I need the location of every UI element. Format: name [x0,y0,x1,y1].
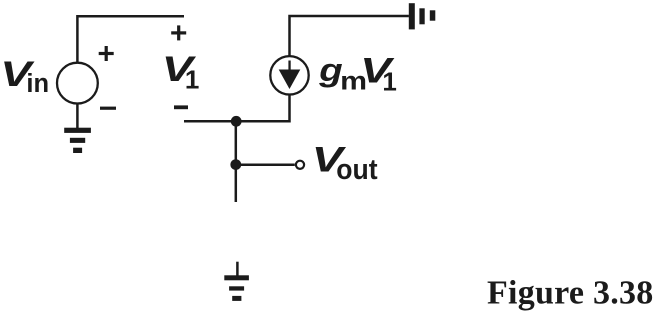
dependent current source gmV1 circle [270,56,308,94]
ground at bottom [224,275,249,301]
wire current source top to supply rail [290,16,409,56]
svg-text:g: g [318,53,343,88]
ground under Vin [64,128,91,153]
node B junction dot [230,159,241,170]
polarity - of Vin [100,107,116,110]
wire Vin bottom to ground [76,104,79,129]
terminal Vout open circle [296,161,304,169]
polarity + of V1 [171,25,186,40]
voltage source Vin circle [57,63,98,104]
svg-text:1: 1 [382,66,396,96]
wire top-left: Vin top to V1 plus terminal [77,16,184,63]
wire node B to Vout terminal [236,164,295,167]
svg-text:1: 1 [185,64,199,94]
svg-text:out: out [336,153,377,185]
wire bottom: V1 minus terminal to current source bottom [184,95,290,121]
wire node A down past node B [235,121,238,202]
svg-text:Figure 3.38: Figure 3.38 [487,274,654,311]
wire stub above bottom ground [236,262,239,276]
polarity + of Vin [99,46,114,61]
arrow inside current source [279,61,301,90]
node A junction dot [231,116,242,127]
svg-text:in: in [26,70,49,98]
supply rail symbol (AC ground, horizontal) [409,3,436,29]
polarity - of V1 [174,105,188,109]
